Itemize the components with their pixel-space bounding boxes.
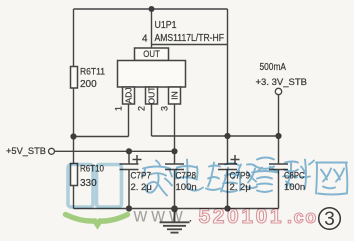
wire ADJ node to pin 1	[74, 136, 129, 138]
U1P1 pin 3 box	[169, 87, 181, 104]
svg-text:.: .	[189, 209, 193, 225]
char dian	[176, 160, 203, 191]
wire output rail	[152, 135, 279, 137]
char wei	[206, 163, 239, 193]
node ADJ	[70, 133, 76, 139]
node out rail / terminal	[275, 133, 281, 139]
wire left column	[73, 9, 75, 209]
capacitor C7P8	[165, 151, 184, 208]
U1P1 pin 1 box	[123, 87, 135, 104]
wire +5V rail	[55, 150, 175, 152]
node out rail / C7P9	[224, 133, 230, 139]
terminal +5V_STB	[49, 148, 55, 154]
ground	[160, 209, 190, 233]
char xiu	[233, 164, 257, 190]
node +5V / pin3 C7P8	[171, 148, 177, 154]
node gnd ground symbol	[171, 205, 178, 212]
wire top rail from left column to right drop	[74, 8, 228, 10]
wire label underline U1P1	[152, 44, 228, 46]
capacitor C7P7	[120, 151, 142, 208]
node +5V / C7P7	[126, 148, 132, 154]
svg-text:AMS1117L/TR-HF: AMS1117L/TR-HF	[155, 33, 225, 44]
svg-text:3: 3	[324, 209, 335, 230]
node junction dots	[70, 6, 281, 212]
U1P1 body	[118, 61, 186, 88]
resistor R6T10	[71, 164, 78, 186]
svg-text:2: 2	[137, 106, 147, 111]
capacitor C7P9	[218, 136, 240, 209]
node top rail / tab	[149, 6, 155, 12]
svg-text:+3. 3V_STB: +3. 3V_STB	[256, 77, 308, 88]
svg-text:500mA: 500mA	[260, 62, 287, 73]
svg-text:OUT: OUT	[147, 87, 157, 105]
wire pin1 down	[128, 104, 130, 137]
wire drop to U1P1 tab	[151, 9, 153, 48]
watermark: blue brush characters	[142, 158, 347, 196]
wire pin3 down	[174, 104, 176, 151]
svg-text:1: 1	[114, 106, 124, 111]
svg-text:IN: IN	[170, 91, 180, 100]
node gnd C7P9	[224, 205, 230, 211]
capacitor C8PC	[269, 136, 288, 209]
char wang	[316, 163, 347, 195]
wire pin2 down	[151, 104, 153, 136]
terminal +3.3V_STB	[275, 88, 281, 94]
node gnd C7P7	[126, 205, 132, 211]
svg-text:+5V_STB: +5V_STB	[6, 146, 46, 157]
svg-text:U1P1: U1P1	[155, 20, 177, 31]
svg-text:www: www	[133, 206, 187, 227]
svg-text:C7P7: C7P7	[131, 171, 152, 182]
U1P1 tab pin 4 OUT	[135, 48, 169, 61]
svg-text:.co: .co	[287, 207, 318, 227]
resistor R6T11	[71, 67, 78, 89]
watermark logo: open book pages	[68, 165, 122, 208]
page number circle 3	[319, 208, 341, 230]
svg-text:OUT: OUT	[143, 49, 160, 60]
watermark logo: green book base	[66, 215, 128, 225]
svg-text:200: 200	[80, 79, 97, 90]
svg-text:3: 3	[160, 106, 170, 111]
wire +3.3V terminal down	[278, 95, 280, 136]
wire ground rail	[74, 208, 279, 210]
wire right drop from top rail	[227, 9, 229, 136]
U1P1 pin 2 box	[146, 87, 158, 104]
polarity plus C7P7	[133, 155, 142, 164]
svg-text:R6T11: R6T11	[80, 67, 105, 78]
svg-text:520101: 520101	[199, 205, 285, 228]
op-amp U1P1 regulator AMS1117 package	[118, 48, 186, 104]
polarity plus C7P9	[231, 155, 240, 164]
svg-text:4: 4	[142, 33, 148, 44]
svg-text:C7P8: C7P8	[176, 171, 197, 182]
svg-text:ADJ: ADJ	[124, 87, 134, 103]
char zi	[252, 158, 278, 193]
char jia	[142, 161, 172, 196]
char liao	[283, 160, 314, 189]
